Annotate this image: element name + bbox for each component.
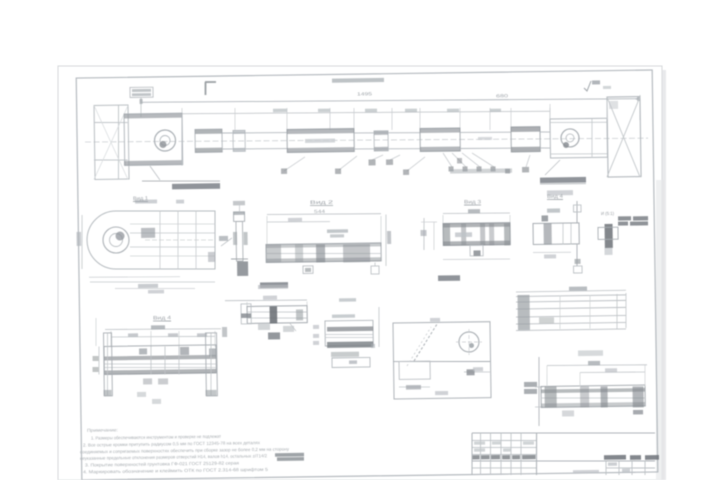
- coupling sleeve 2: [420, 128, 460, 152]
- svg-text:И (5:1): И (5:1): [601, 211, 615, 216]
- view V9 plate: [430, 318, 440, 322]
- svg-text:Вид 2: Вид 2: [310, 200, 333, 206]
- left end block: [94, 105, 129, 179]
- V9 dims: [399, 386, 430, 389]
- V3 right dim: [385, 215, 386, 267]
- V1 dims: [89, 276, 180, 278]
- strip part: [516, 290, 626, 292]
- V9 circle: [459, 332, 479, 352]
- paper sheet: [58, 66, 662, 480]
- V4 dark label: [438, 275, 460, 281]
- V8 flanges: [103, 333, 112, 396]
- view V10 rod: [547, 364, 647, 366]
- V7 dark slot: [270, 306, 278, 323]
- svg-text:680: 680: [496, 93, 509, 98]
- rod segment 3: [460, 132, 511, 133]
- paper right shadow: [656, 180, 664, 480]
- view V2 bolt section: [233, 201, 245, 206]
- top label: [332, 78, 384, 83]
- roughness mark: [584, 81, 591, 91]
- fork eye circle: [154, 130, 175, 151]
- coupling sleeve 3: [511, 127, 540, 152]
- overall dimension line: [141, 95, 640, 105]
- rod segment 1: [222, 132, 287, 133]
- title block text row: [473, 455, 480, 459]
- drawing frame: [76, 70, 658, 480]
- collar 1: [195, 129, 222, 152]
- right clevis: [550, 118, 608, 158]
- svg-text:Вид 1: Вид 1: [133, 196, 148, 202]
- rod segment 2: [354, 132, 420, 134]
- svg-text:1495: 1495: [357, 91, 373, 96]
- view V1 fork detail: [87, 210, 216, 271]
- right dim ext: [549, 104, 552, 119]
- view V4 sleeve: [443, 213, 510, 214]
- V2 nut dark: [237, 261, 248, 276]
- note stamp blob: [275, 453, 304, 457]
- detail I dark note: [618, 216, 631, 220]
- view V5 body: [533, 223, 579, 245]
- left designation leader: [142, 180, 220, 182]
- V3 dark label: [260, 282, 288, 288]
- clevis eye circle: [561, 129, 579, 147]
- V9 diagonal: [413, 323, 438, 361]
- svg-text:Примечание:: Примечание:: [87, 427, 118, 432]
- V5 pin: [576, 201, 579, 224]
- callout leaders: [284, 157, 305, 171]
- svg-text:544: 544: [314, 209, 326, 214]
- right end block: [607, 97, 641, 177]
- svg-text:Вид 3: Вид 3: [464, 199, 481, 205]
- svg-text:Вид 4: Вид 4: [153, 315, 171, 321]
- view V10 label: [578, 350, 603, 356]
- section flag G: [205, 81, 216, 83]
- view V7 slot plate: [258, 285, 288, 289]
- left designation label: [172, 183, 220, 189]
- V3 pin below: [374, 262, 376, 266]
- title block: [472, 430, 655, 435]
- stamp box: [130, 87, 153, 97]
- view V3 long bar: [267, 213, 381, 215]
- detail I core: [605, 224, 613, 248]
- small collar: [233, 130, 245, 151]
- rod segment 4: [540, 131, 550, 133]
- small collar 2: [374, 131, 388, 151]
- segment dimension line: [182, 109, 550, 117]
- right designation label: [545, 160, 560, 175]
- fork arm: [124, 113, 183, 165]
- V8 left dim: [98, 347, 101, 375]
- coupling sleeve 1: [287, 129, 354, 153]
- axis line: [85, 134, 648, 146]
- layered section view: [339, 298, 356, 302]
- svg-text:Вид 4: Вид 4: [547, 194, 563, 200]
